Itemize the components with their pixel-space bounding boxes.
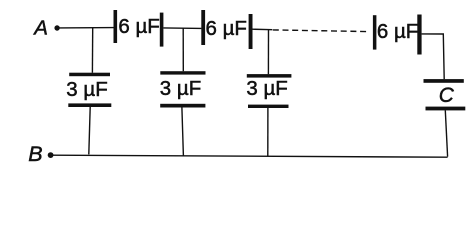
wire C4 to right corner down to C [422, 34, 445, 79]
svg-text:A: A [32, 16, 48, 39]
wire A to C1 [60, 27, 114, 29]
svg-text:6 µF: 6 µF [118, 15, 159, 38]
terminal dot B [48, 152, 54, 158]
wire junction 2 down [182, 28, 184, 71]
capacitor 3uF #2 bottom plate [160, 104, 205, 108]
svg-text:3 µF: 3 µF [246, 77, 287, 100]
dashed wire continuation [273, 30, 370, 32]
svg-text:6 µF: 6 µF [206, 17, 247, 40]
svg-text:B: B [28, 142, 42, 166]
capacitor C top plate [424, 79, 464, 83]
terminal dot A [54, 25, 59, 30]
wire 3uF #2 to bottom rail [182, 108, 184, 156]
svg-text:6 µF: 6 µF [377, 20, 418, 43]
capacitor C bottom plate [426, 107, 466, 111]
capacitor C2 6uF right plate [249, 14, 253, 49]
capacitor 3uF #3 bottom plate [248, 105, 289, 108]
capacitor 3uF #3 top plate [247, 74, 292, 78]
capacitor C1 6uF left plate [114, 10, 118, 43]
capacitor C1 6uF right plate [160, 13, 164, 47]
wire junction 1 down [91, 28, 93, 73]
wire junction 3 down [267, 30, 269, 75]
wire C2 to junction 3 [253, 28, 273, 31]
svg-text:3 µF: 3 µF [160, 77, 201, 100]
wire C to bottom rail [445, 110, 447, 156]
capacitor 3uF #1 top plate [69, 73, 110, 77]
svg-text:3 µF: 3 µF [66, 78, 107, 101]
capacitor C4 6uF left plate [373, 15, 377, 49]
capacitor 3uF #2 top plate [160, 71, 205, 74]
wire C1 to C2 [163, 27, 201, 30]
capacitor 3uF #1 bottom plate [68, 103, 111, 107]
capacitor C2 6uF left plate [201, 10, 205, 45]
svg-text:C: C [439, 84, 455, 107]
bottom rail wire [53, 155, 448, 157]
wire 3uF #3 to bottom rail [267, 108, 269, 156]
wire 3uF #1 to bottom rail [89, 107, 90, 154]
capacitor C4 6uF right plate [417, 15, 421, 55]
